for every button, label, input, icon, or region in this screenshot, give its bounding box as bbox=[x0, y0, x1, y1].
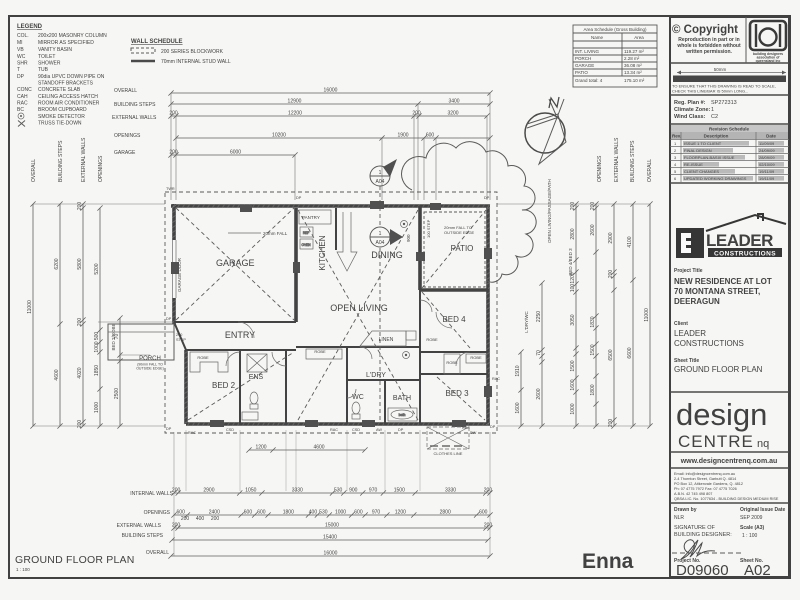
svg-text:2400: 2400 bbox=[209, 510, 220, 516]
svg-text:REF: REF bbox=[303, 231, 309, 235]
svg-text:200: 200 bbox=[172, 488, 181, 494]
svg-text:11000: 11000 bbox=[644, 308, 650, 322]
svg-text:BED 4: BED 4 bbox=[442, 315, 466, 324]
svg-text:200: 200 bbox=[570, 202, 576, 211]
svg-text:STANDOFF BRACKETS: STANDOFF BRACKETS bbox=[38, 81, 94, 87]
svg-text:500: 500 bbox=[94, 332, 100, 341]
svg-text:200: 200 bbox=[77, 420, 83, 429]
svg-text:GROUND FLOOR PLAN: GROUND FLOOR PLAN bbox=[674, 365, 763, 374]
svg-text:NLR: NLR bbox=[674, 515, 684, 521]
svg-text:4600: 4600 bbox=[54, 369, 60, 380]
svg-text:WC: WC bbox=[17, 54, 26, 60]
svg-text:A04: A04 bbox=[376, 240, 385, 246]
svg-text:OVEN: OVEN bbox=[301, 243, 311, 247]
svg-text:CEILING ACCESS HATCH: CEILING ACCESS HATCH bbox=[38, 94, 98, 100]
svg-text:OUTSIDE EDGE): OUTSIDE EDGE) bbox=[136, 367, 164, 371]
svg-text:OPEN LIVING: OPEN LIVING bbox=[330, 303, 388, 313]
svg-text:www.designcentrenq.com.au: www.designcentrenq.com.au bbox=[680, 458, 778, 465]
svg-text:20mm FALL: 20mm FALL bbox=[263, 231, 288, 236]
svg-text:FLOORPLAN-BASIX ISSUE: FLOORPLAN-BASIX ISSUE bbox=[684, 155, 735, 160]
svg-text:DW: DW bbox=[470, 431, 477, 435]
svg-text:OPENINGS: OPENINGS bbox=[98, 155, 104, 182]
svg-text:600: 600 bbox=[354, 510, 363, 516]
svg-text:119.27 m²: 119.27 m² bbox=[624, 49, 644, 54]
svg-text:CAH: CAH bbox=[17, 94, 28, 100]
svg-text:design: design bbox=[676, 397, 767, 432]
svg-text:BED 3: BED 3 bbox=[445, 389, 469, 398]
svg-text:3330: 3330 bbox=[292, 488, 303, 494]
svg-text:A04: A04 bbox=[376, 179, 385, 185]
svg-text:16000: 16000 bbox=[324, 551, 338, 557]
svg-text:DP: DP bbox=[398, 428, 404, 432]
svg-text:6200: 6200 bbox=[54, 258, 60, 269]
svg-text:LINEN: LINEN bbox=[379, 337, 394, 343]
svg-text:200: 200 bbox=[169, 111, 178, 117]
svg-text:1850: 1850 bbox=[94, 365, 100, 376]
svg-text:530: 530 bbox=[319, 510, 328, 516]
svg-text:BED 2/ROBE: BED 2/ROBE bbox=[111, 323, 116, 350]
svg-text:200: 200 bbox=[484, 488, 493, 494]
svg-text:L'DRY/WC: L'DRY/WC bbox=[524, 310, 529, 332]
svg-text:11000: 11000 bbox=[27, 300, 33, 314]
svg-text:RAC: RAC bbox=[17, 101, 28, 107]
svg-text:5200: 5200 bbox=[94, 263, 100, 274]
svg-text:LEADER: LEADER bbox=[674, 329, 706, 338]
svg-text:DP: DP bbox=[166, 427, 172, 431]
svg-text:02/10/09: 02/10/09 bbox=[759, 162, 775, 167]
svg-text:CHECK THIS LINE/BAR IS 50mm LO: CHECK THIS LINE/BAR IS 50mm LONG... bbox=[672, 89, 748, 94]
svg-text:Climate Zone:: Climate Zone: bbox=[674, 107, 711, 113]
svg-text:1910: 1910 bbox=[515, 365, 521, 376]
svg-text:KITCHEN: KITCHEN bbox=[318, 235, 327, 270]
svg-text:Project Title: Project Title bbox=[674, 268, 703, 274]
svg-text:970: 970 bbox=[369, 488, 378, 494]
svg-text:1000: 1000 bbox=[335, 510, 346, 516]
svg-text:OVERALL: OVERALL bbox=[146, 550, 169, 556]
svg-text:19/11/09: 19/11/09 bbox=[759, 169, 775, 174]
svg-text:BUILDING STEPS: BUILDING STEPS bbox=[122, 533, 164, 539]
svg-text:INTERNAL WALLS: INTERNAL WALLS bbox=[130, 491, 173, 497]
svg-text:Wind Class:: Wind Class: bbox=[674, 114, 706, 120]
svg-text:Enna: Enna bbox=[582, 550, 634, 573]
svg-text:200: 200 bbox=[181, 516, 190, 522]
svg-text:24/09/09: 24/09/09 bbox=[759, 148, 775, 153]
svg-text:UPDATED WORKING DRAWINGS: UPDATED WORKING DRAWINGS bbox=[684, 176, 747, 181]
svg-text:VB: VB bbox=[17, 47, 24, 53]
svg-text:SIGNATURE OF: SIGNATURE OF bbox=[674, 525, 715, 531]
svg-text:200: 200 bbox=[211, 516, 220, 522]
svg-text:ROBE: ROBE bbox=[470, 355, 482, 360]
svg-text:OUTSIDE EDGE: OUTSIDE EDGE bbox=[444, 230, 475, 235]
svg-text:900: 900 bbox=[349, 488, 358, 494]
svg-text:1200: 1200 bbox=[395, 510, 406, 516]
svg-text:200: 200 bbox=[77, 318, 83, 327]
svg-text:PATIO: PATIO bbox=[575, 70, 588, 75]
svg-text:ISSUE 1 TO CLIENT: ISSUE 1 TO CLIENT bbox=[684, 141, 722, 146]
svg-text:CSD: CSD bbox=[352, 428, 360, 432]
svg-text:200: 200 bbox=[77, 202, 83, 211]
svg-text:EXTERNAL WALLS: EXTERNAL WALLS bbox=[112, 115, 157, 121]
svg-text:TUB: TUB bbox=[38, 67, 49, 73]
svg-text:1600: 1600 bbox=[570, 379, 576, 390]
svg-text:OPEN LIVING/PASSAGE/PATH: OPEN LIVING/PASSAGE/PATH bbox=[547, 179, 552, 243]
svg-text:PATIO: PATIO bbox=[451, 244, 474, 253]
svg-text:BUILDING STEPS: BUILDING STEPS bbox=[58, 140, 64, 182]
svg-text:SMOKE DETECTOR: SMOKE DETECTOR bbox=[38, 114, 85, 120]
svg-text:QBSA LIC. No. 1077634 - BUILDI: QBSA LIC. No. 1077634 - BUILDING DESIGN … bbox=[674, 497, 779, 501]
svg-text:600: 600 bbox=[257, 510, 266, 516]
svg-text:1500: 1500 bbox=[570, 360, 576, 371]
svg-text:OVERALL: OVERALL bbox=[114, 88, 137, 94]
svg-text:written permission.: written permission. bbox=[685, 49, 732, 55]
svg-text:50mm: 50mm bbox=[714, 67, 727, 72]
svg-text:10200: 10200 bbox=[272, 133, 286, 139]
svg-text:600: 600 bbox=[426, 133, 435, 139]
svg-text:SEP 2009: SEP 2009 bbox=[740, 515, 763, 521]
svg-text:OPENINGS: OPENINGS bbox=[597, 155, 603, 182]
svg-text:Ph: 07 4775 7972 Fax: 07 4775: Ph: 07 4775 7972 Fax: 07 4775 7026 bbox=[674, 487, 737, 491]
svg-text:Area: Area bbox=[634, 35, 644, 40]
svg-text:BATH: BATH bbox=[393, 395, 411, 402]
svg-text:BUILDING STEPS: BUILDING STEPS bbox=[114, 102, 156, 108]
svg-text:4020: 4020 bbox=[77, 367, 83, 378]
svg-text:6500: 6500 bbox=[608, 349, 614, 360]
svg-text:INT. LIVING: INT. LIVING bbox=[575, 49, 600, 54]
svg-text:CONSTRUCTIONS: CONSTRUCTIONS bbox=[714, 250, 776, 257]
svg-text:RAC: RAC bbox=[188, 431, 196, 435]
svg-text:BUILDING STEPS: BUILDING STEPS bbox=[630, 140, 636, 182]
svg-text:1830: 1830 bbox=[590, 316, 596, 327]
svg-text:OPENINGS: OPENINGS bbox=[144, 510, 171, 516]
svg-text:MI: MI bbox=[17, 40, 23, 46]
svg-text:DP: DP bbox=[166, 317, 172, 321]
svg-text:200: 200 bbox=[608, 270, 614, 279]
svg-text:3330: 3330 bbox=[445, 488, 456, 494]
svg-text:EXTERNAL WALLS: EXTERNAL WALLS bbox=[81, 137, 87, 182]
svg-text:Description: Description bbox=[704, 134, 729, 139]
svg-text:5800: 5800 bbox=[77, 258, 83, 269]
svg-text:PORCH: PORCH bbox=[575, 56, 591, 61]
svg-text:4600: 4600 bbox=[313, 445, 324, 451]
svg-text:RAC: RAC bbox=[492, 377, 500, 381]
svg-text:TRUSS TIE-DOWN: TRUSS TIE-DOWN bbox=[38, 121, 82, 127]
svg-text:CONC: CONC bbox=[17, 87, 32, 93]
svg-text:28/09/09: 28/09/09 bbox=[759, 155, 775, 160]
svg-text:© Copyright: © Copyright bbox=[672, 24, 738, 36]
svg-text:T: T bbox=[17, 67, 20, 73]
svg-text:1: 1 bbox=[711, 107, 714, 113]
svg-text:2-4 Thornton Street, Garbutt Q: 2-4 Thornton Street, Garbutt Q. 4814 bbox=[674, 477, 736, 481]
svg-text:1500: 1500 bbox=[590, 344, 596, 355]
svg-text:NEW RESIDENCE AT LOT: NEW RESIDENCE AT LOT bbox=[674, 277, 772, 286]
svg-text:BROOM CUPBOARD: BROOM CUPBOARD bbox=[38, 107, 87, 113]
svg-text:PANTRY: PANTRY bbox=[302, 215, 320, 220]
svg-text:970: 970 bbox=[372, 510, 381, 516]
svg-text:CLIENT CHANGES: CLIENT CHANGES bbox=[684, 169, 719, 174]
svg-text:Original Issue Date: Original Issue Date bbox=[740, 507, 786, 513]
svg-text:1500: 1500 bbox=[394, 488, 405, 494]
svg-text:TOILET: TOILET bbox=[38, 54, 55, 60]
svg-text:DINING: DINING bbox=[371, 250, 403, 260]
svg-text:CSD: CSD bbox=[226, 428, 234, 432]
svg-text:Drawn by: Drawn by bbox=[674, 507, 697, 513]
svg-text:RE-ISSUE: RE-ISSUE bbox=[684, 162, 703, 167]
svg-text:Email: info@designcentrenq.com: Email: info@designcentrenq.com.au bbox=[674, 472, 735, 476]
svg-text:C2: C2 bbox=[711, 114, 718, 120]
svg-text:200: 200 bbox=[169, 150, 178, 156]
svg-text:90dia UPVC DOWN PIPE ON: 90dia UPVC DOWN PIPE ON bbox=[38, 74, 105, 80]
svg-text:Area Schedule (Gross Building): Area Schedule (Gross Building) bbox=[583, 27, 647, 32]
svg-text:CONCRETE SLAB: CONCRETE SLAB bbox=[38, 87, 81, 93]
svg-text:L'DRY: L'DRY bbox=[366, 372, 386, 379]
svg-text:bath: bath bbox=[399, 413, 406, 417]
svg-text:1 : 100: 1 : 100 bbox=[742, 533, 758, 539]
svg-text:D09060: D09060 bbox=[676, 562, 729, 579]
svg-text:Reg. Plan #:: Reg. Plan #: bbox=[674, 100, 706, 106]
svg-text:DP: DP bbox=[484, 196, 490, 200]
svg-text:nq: nq bbox=[757, 438, 769, 450]
svg-text:RAC: RAC bbox=[330, 428, 338, 432]
svg-text:600: 600 bbox=[177, 510, 186, 516]
svg-text:100 STEP: 100 STEP bbox=[426, 219, 431, 238]
svg-text:2800: 2800 bbox=[440, 510, 451, 516]
svg-text:Client: Client bbox=[674, 321, 688, 327]
svg-text:175.10 m²: 175.10 m² bbox=[624, 78, 645, 83]
svg-text:15000: 15000 bbox=[325, 523, 339, 529]
svg-text:ROOM AIR CONDITIONER: ROOM AIR CONDITIONER bbox=[38, 101, 100, 107]
svg-text:2800: 2800 bbox=[570, 228, 576, 239]
svg-text:Sheet Title: Sheet Title bbox=[674, 358, 699, 364]
svg-text:MIRROR AS SPECIFIED: MIRROR AS SPECIFIED bbox=[38, 40, 94, 46]
svg-text:SP272313: SP272313 bbox=[711, 100, 737, 106]
svg-text:3200: 3200 bbox=[447, 111, 458, 117]
svg-text:BUILDING DESIGNER:: BUILDING DESIGNER: bbox=[674, 532, 732, 538]
svg-text:600: 600 bbox=[244, 510, 253, 516]
svg-text:CENTRE: CENTRE bbox=[678, 432, 754, 451]
svg-text:DEERAGUN: DEERAGUN bbox=[674, 297, 720, 306]
svg-text:2.28 m²: 2.28 m² bbox=[624, 56, 640, 61]
svg-text:70: 70 bbox=[536, 350, 542, 356]
svg-text:19/11/09: 19/11/09 bbox=[759, 176, 775, 181]
svg-text:2900: 2900 bbox=[203, 488, 214, 494]
svg-text:Name: Name bbox=[591, 35, 604, 40]
svg-text:1: 1 bbox=[379, 170, 382, 176]
svg-text:6600: 6600 bbox=[627, 347, 633, 358]
svg-text:Grand total: 4: Grand total: 4 bbox=[575, 78, 603, 83]
svg-text:1000: 1000 bbox=[570, 403, 576, 414]
svg-text:A.B.N. 42 745 498 807: A.B.N. 42 745 498 807 bbox=[674, 492, 712, 496]
svg-text:GARAGE: GARAGE bbox=[216, 258, 255, 268]
svg-text:1000: 1000 bbox=[94, 402, 100, 413]
svg-text:EXTERNAL WALLS: EXTERNAL WALLS bbox=[614, 137, 620, 182]
svg-text:12200: 12200 bbox=[288, 111, 302, 117]
svg-text:200: 200 bbox=[412, 111, 421, 117]
svg-text:400: 400 bbox=[309, 510, 318, 516]
svg-text:GROUND FLOOR PLAN: GROUND FLOOR PLAN bbox=[15, 554, 135, 566]
svg-text:4100: 4100 bbox=[627, 236, 633, 247]
svg-text:2900: 2900 bbox=[608, 232, 614, 243]
svg-text:16000: 16000 bbox=[324, 88, 338, 94]
svg-text:ROBE: ROBE bbox=[314, 349, 326, 354]
svg-text:SHR: SHR bbox=[17, 61, 28, 67]
svg-text:CLOTHES LINE: CLOTHES LINE bbox=[434, 451, 463, 456]
svg-text:1200: 1200 bbox=[570, 272, 576, 283]
svg-text:DP: DP bbox=[296, 196, 302, 200]
svg-text:1600: 1600 bbox=[515, 402, 521, 413]
svg-text:PO Box 12, Aitkenvale Gardens,: PO Box 12, Aitkenvale Gardens, Q. 4812 bbox=[674, 482, 743, 486]
svg-text:2500: 2500 bbox=[114, 388, 120, 399]
svg-text:70mm INTERNAL STUD WALL: 70mm INTERNAL STUD WALL bbox=[161, 59, 231, 65]
svg-text:100: 100 bbox=[570, 284, 576, 293]
svg-text:13.34 m²: 13.34 m² bbox=[624, 70, 642, 75]
svg-text:2600: 2600 bbox=[590, 224, 596, 235]
svg-text:200: 200 bbox=[484, 523, 493, 529]
svg-text:ROBE: ROBE bbox=[197, 355, 209, 360]
svg-text:200: 200 bbox=[172, 523, 181, 529]
svg-text:ENTRY: ENTRY bbox=[225, 330, 255, 340]
svg-text:BED 2: BED 2 bbox=[212, 381, 236, 390]
svg-text:36.08 m²: 36.08 m² bbox=[624, 63, 642, 68]
svg-text:LEADER: LEADER bbox=[706, 231, 773, 250]
svg-text:70 MONTANA STREET,: 70 MONTANA STREET, bbox=[674, 287, 760, 296]
svg-text:OVERALL: OVERALL bbox=[31, 159, 37, 182]
svg-text:2250: 2250 bbox=[536, 311, 542, 322]
svg-text:12900: 12900 bbox=[288, 99, 302, 105]
svg-text:11/09/09: 11/09/09 bbox=[759, 141, 775, 146]
svg-text:Scale (A3): Scale (A3) bbox=[740, 525, 765, 531]
svg-text:GARAGE: GARAGE bbox=[575, 63, 594, 68]
svg-text:AW: AW bbox=[376, 428, 382, 432]
svg-text:1000: 1000 bbox=[94, 341, 100, 352]
svg-text:CONSTRUCTIONS: CONSTRUCTIONS bbox=[674, 339, 744, 348]
svg-text:1800: 1800 bbox=[590, 384, 596, 395]
svg-text:Rev.: Rev. bbox=[672, 134, 681, 139]
svg-text:ENS: ENS bbox=[249, 374, 264, 381]
svg-text:1050: 1050 bbox=[245, 488, 256, 494]
svg-text:BED 4/BED 3: BED 4/BED 3 bbox=[568, 248, 573, 276]
svg-text:Date: Date bbox=[766, 134, 776, 139]
svg-text:ROBE: ROBE bbox=[426, 337, 438, 342]
svg-text:1200: 1200 bbox=[255, 445, 266, 451]
svg-text:COL.: COL. bbox=[17, 33, 29, 39]
svg-text:BC: BC bbox=[17, 107, 24, 113]
svg-text:200: 200 bbox=[176, 333, 182, 337]
svg-text:A02: A02 bbox=[744, 562, 771, 579]
svg-text:LEGEND: LEGEND bbox=[17, 24, 43, 30]
svg-text:6000: 6000 bbox=[230, 150, 241, 156]
svg-text:530: 530 bbox=[334, 488, 343, 494]
svg-text:TWR: TWR bbox=[166, 187, 175, 191]
svg-text:FINAL DESIGN: FINAL DESIGN bbox=[684, 148, 712, 153]
svg-text:STEP: STEP bbox=[176, 338, 186, 342]
svg-text:PORCH: PORCH bbox=[139, 356, 161, 362]
svg-text:3400: 3400 bbox=[448, 99, 459, 105]
svg-text:200x200 MASONRY COLUMN: 200x200 MASONRY COLUMN bbox=[38, 33, 107, 39]
svg-text:EXTERNAL WALLS: EXTERNAL WALLS bbox=[117, 523, 162, 529]
svg-text:VANITY BASIN: VANITY BASIN bbox=[38, 47, 72, 53]
svg-text:1800: 1800 bbox=[283, 510, 294, 516]
svg-text:1 : 100: 1 : 100 bbox=[16, 567, 30, 572]
svg-text:15400: 15400 bbox=[323, 535, 337, 541]
svg-text:OVERALL: OVERALL bbox=[647, 159, 653, 182]
svg-text:GARAGE: GARAGE bbox=[114, 150, 136, 156]
svg-text:200: 200 bbox=[590, 202, 596, 211]
svg-text:600: 600 bbox=[479, 510, 488, 516]
svg-text:3050: 3050 bbox=[570, 314, 576, 325]
svg-text:DP: DP bbox=[490, 425, 496, 429]
svg-text:200 SERIES BLOCKWORK: 200 SERIES BLOCKWORK bbox=[161, 49, 224, 55]
svg-text:1900: 1900 bbox=[397, 133, 408, 139]
svg-text:400: 400 bbox=[196, 516, 205, 522]
svg-text:1: 1 bbox=[379, 231, 382, 237]
svg-text:OPENINGS: OPENINGS bbox=[114, 133, 141, 139]
svg-text:SHOWER: SHOWER bbox=[38, 61, 61, 67]
svg-text:queensland inc: queensland inc bbox=[756, 59, 781, 63]
svg-text:WALL SCHEDULE: WALL SCHEDULE bbox=[131, 39, 183, 45]
svg-text:DP: DP bbox=[17, 74, 25, 80]
svg-text:2600: 2600 bbox=[536, 388, 542, 399]
svg-text:900: 900 bbox=[406, 234, 411, 242]
svg-text:Revision Schedule: Revision Schedule bbox=[709, 127, 750, 132]
